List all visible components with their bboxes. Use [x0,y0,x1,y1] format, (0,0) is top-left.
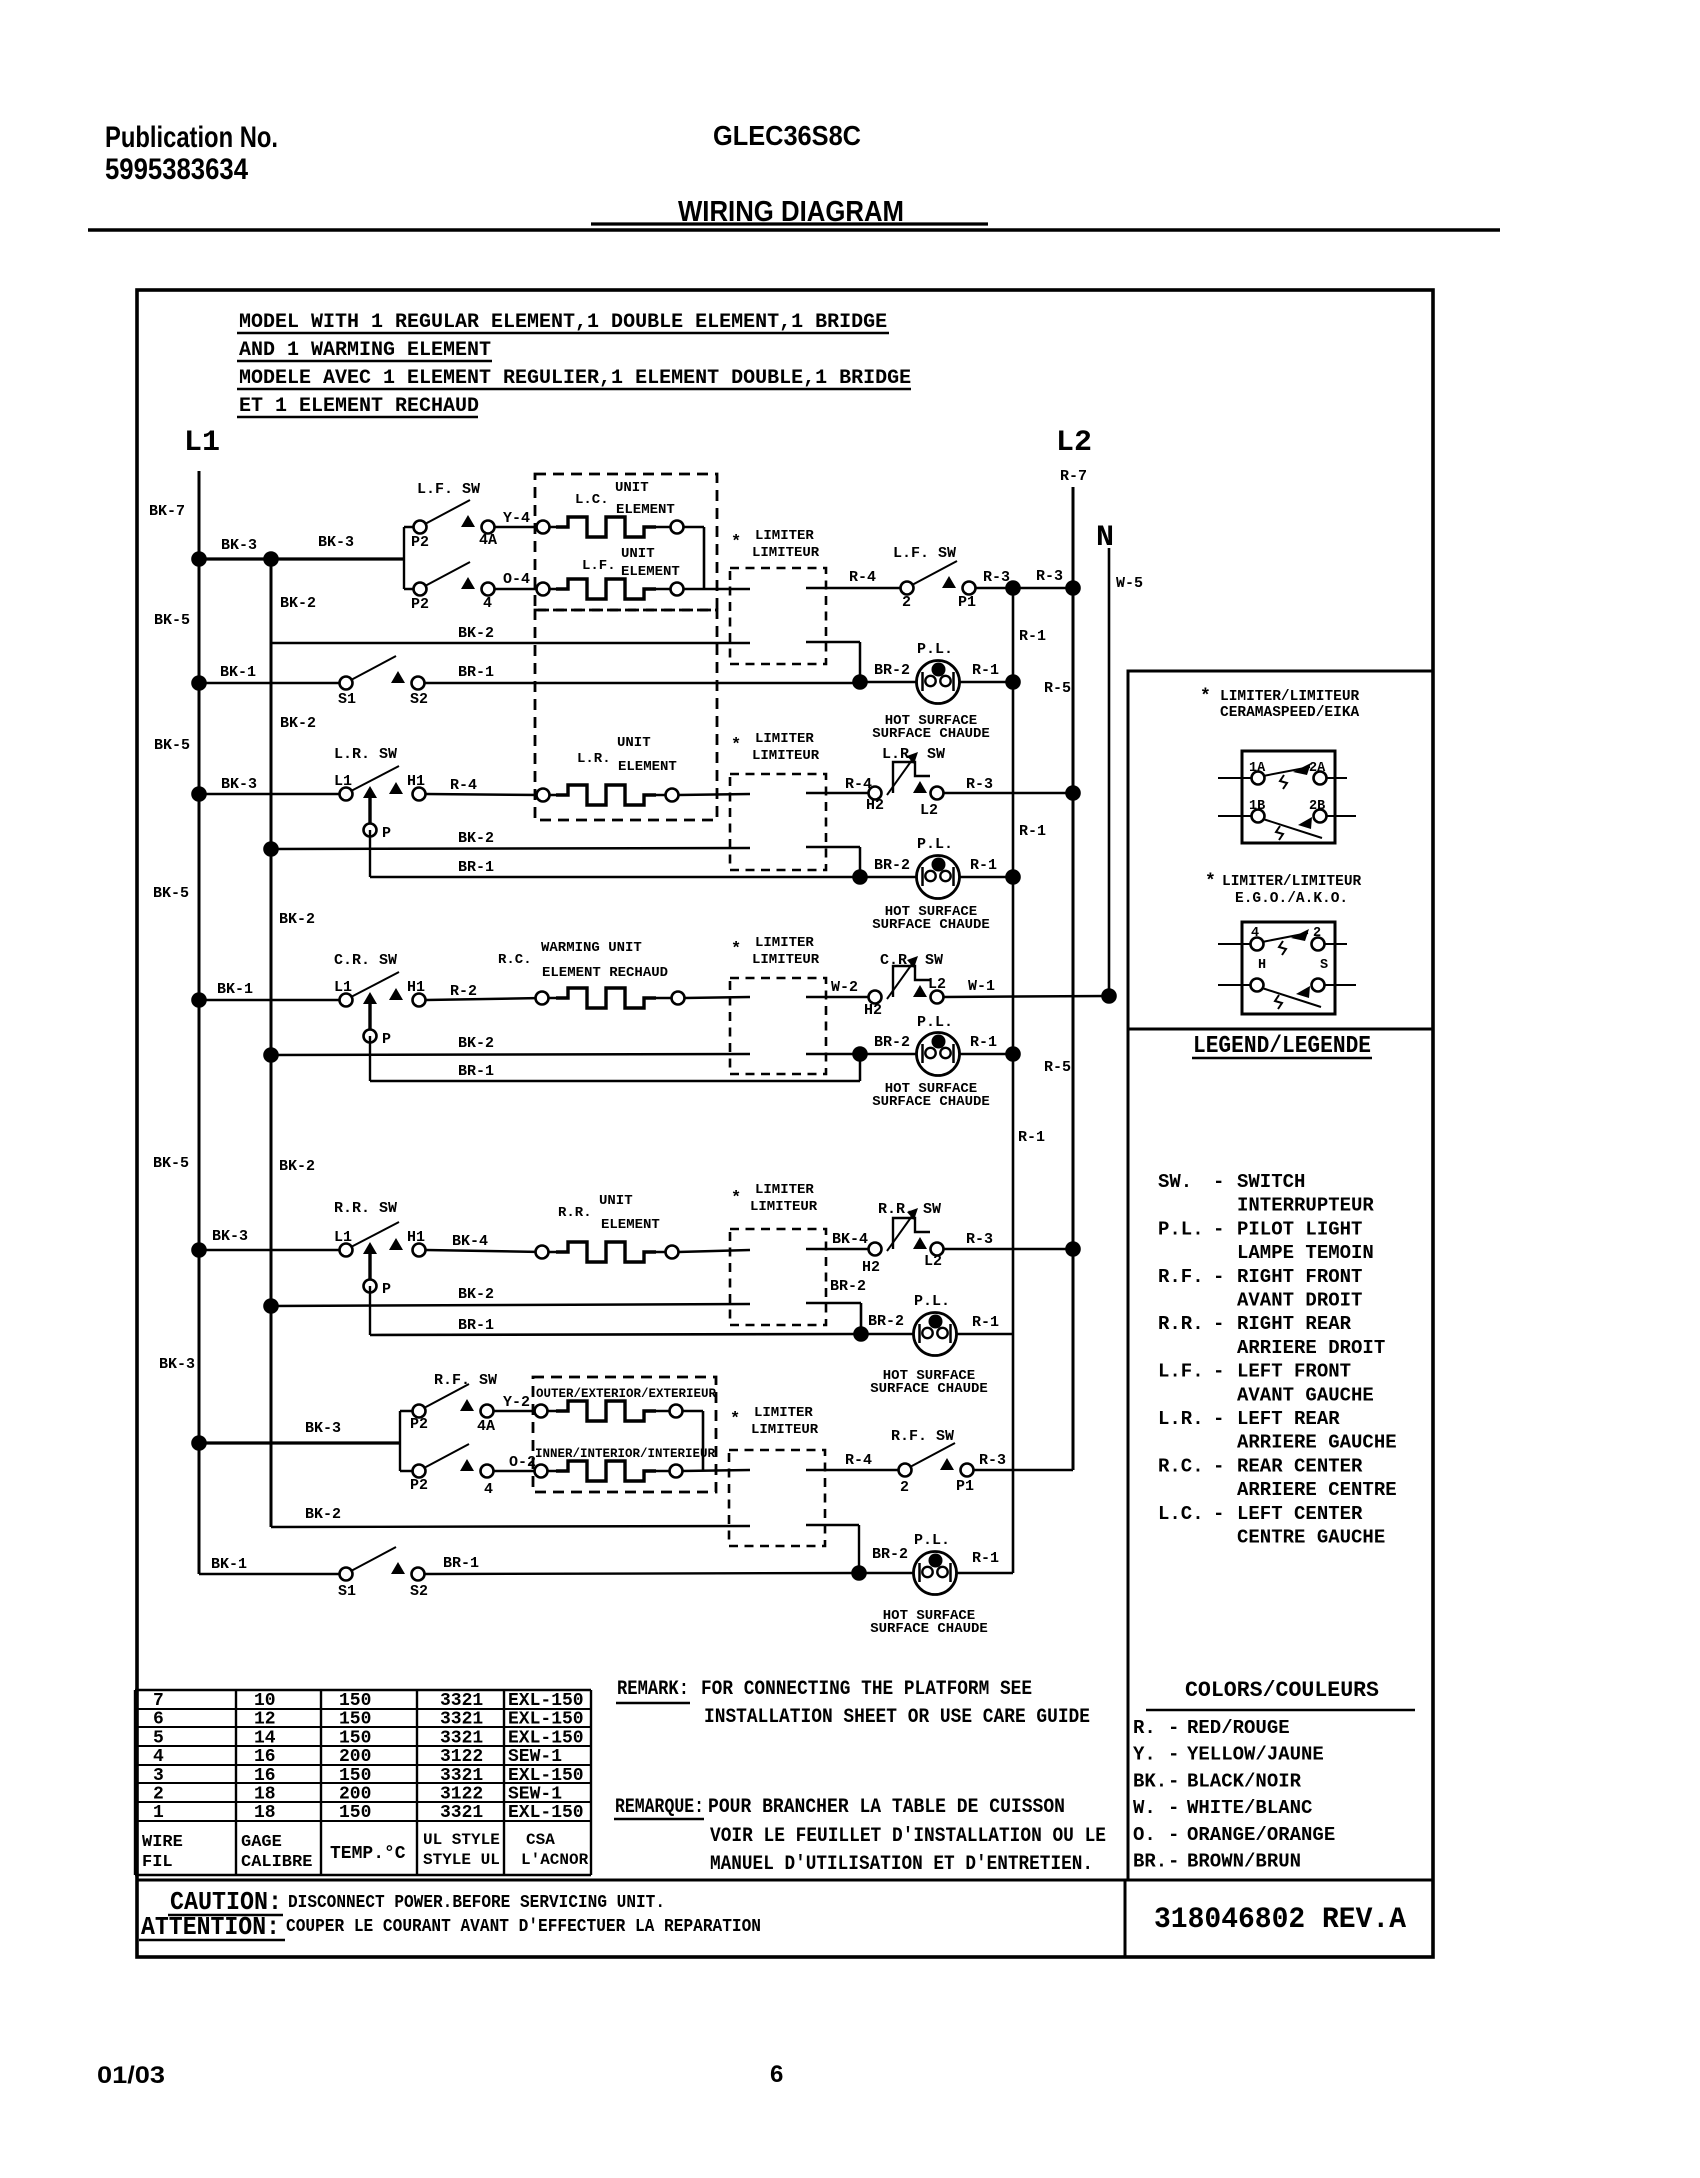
svg-text:LIMITER: LIMITER [754,1405,813,1421]
svg-text:1: 1 [153,1803,164,1823]
svg-text:AVANT GAUCHE: AVANT GAUCHE [1237,1384,1374,1406]
svg-text:P.L.: P.L. [917,836,953,853]
element box R.F. [533,1377,716,1492]
wire Y-4 [494,526,543,529]
limiter sym1 contact 1B-2B [1218,815,1252,817]
svg-text:R.C.: R.C. [1158,1455,1204,1477]
svg-text:200: 200 [339,1747,371,1767]
wire bridge riser row5 [702,1411,705,1471]
limiter sym1 contact 1A-2A [1218,777,1252,779]
svg-text:150: 150 [339,1803,371,1823]
svg-text:P2: P2 [411,596,429,613]
svg-text:R.R. SW: R.R. SW [334,1200,397,1217]
svg-text:BK-2: BK-2 [279,911,315,928]
svg-text:01/03: 01/03 [97,2062,165,2089]
svg-text:LEFT REAR: LEFT REAR [1237,1408,1340,1430]
svg-text:3321: 3321 [440,1803,483,1823]
svg-text:BR-2: BR-2 [872,1546,908,1563]
wire BK-2 exit row5 [806,1524,859,1527]
junction R-3/L2 row2 [1065,785,1081,801]
wire into pilot light [867,681,917,684]
wire R-1 row1 [959,681,1013,684]
limiter symbol CERAMASPEED box [1242,751,1335,843]
svg-text:S2: S2 [410,691,428,708]
svg-text:R-1: R-1 [972,662,999,679]
svg-text:P: P [382,1031,391,1048]
svg-text:R-3: R-3 [979,1452,1006,1469]
svg-text:WHITE/BLANC: WHITE/BLANC [1187,1797,1312,1819]
svg-text:MODELE AVEC 1 ELEMENT REGULIER: MODELE AVEC 1 ELEMENT REGULIER,1 ELEMENT… [239,367,911,390]
svg-text:BR.: BR. [1133,1851,1167,1873]
svg-text:-: - [1168,1744,1179,1766]
svg-text:SWITCH: SWITCH [1237,1171,1305,1193]
svg-text:3122: 3122 [440,1785,483,1805]
svg-text:E.G.O./A.K.O.: E.G.O./A.K.O. [1235,891,1348,907]
svg-text:Y.: Y. [1133,1744,1156,1766]
wire R-4 row5 right [806,1469,899,1472]
svg-text:L'ACNOR: L'ACNOR [521,1851,589,1869]
svg-text:R-5: R-5 [1044,1059,1071,1076]
wire W-1 row3 [943,996,1109,997]
wire L1 bus BK [198,471,201,1574]
svg-text:10: 10 [254,1691,276,1711]
wire BR-2 exit row4 [806,1302,861,1305]
svg-text:REAR CENTER: REAR CENTER [1237,1455,1363,1477]
pilot light P.L. row6 [914,1552,957,1595]
wire P2 riser [403,527,405,589]
wire BK-2 exit row3 [806,1053,860,1056]
svg-text:R-1: R-1 [970,1034,997,1051]
svg-text:2: 2 [902,594,911,611]
svg-text:UNIT: UNIT [599,1193,633,1209]
pilot light P.L. row2 [917,856,960,899]
svg-text:FIL: FIL [142,1853,173,1872]
svg-text:L1: L1 [334,1229,352,1246]
svg-text:BR-1: BR-1 [458,859,494,876]
junction BR-2 row2 [852,869,868,885]
svg-text:BR-1: BR-1 [458,1317,494,1334]
junction BK-2 row4 [263,1298,279,1314]
switch R.F. SW lower P2-4 [413,1444,494,1478]
svg-text:ELEMENT: ELEMENT [616,502,675,518]
svg-text:SEW-1: SEW-1 [508,1747,562,1767]
svg-text:12: 12 [254,1710,276,1730]
svg-text:INTERRUPTEUR: INTERRUPTEUR [1237,1195,1374,1217]
svg-text:Y-4: Y-4 [503,510,530,527]
svg-text:UL STYLE: UL STYLE [423,1831,500,1849]
switch L.F. SW upper P2-4A [414,500,495,534]
wire BR-1 row6 [424,1573,859,1574]
svg-text:L1: L1 [334,773,352,790]
svg-text:LIMITER/LIMITEUR: LIMITER/LIMITEUR [1220,689,1360,705]
wire O-4 [494,588,543,591]
svg-text:BK-3: BK-3 [318,534,354,551]
svg-text:GLEC36S8C: GLEC36S8C [713,120,861,151]
svg-text:BR-1: BR-1 [458,664,494,681]
svg-text:L.R.: L.R. [1158,1408,1204,1430]
svg-text:INNER/INTERIOR/INTERIEUR: INNER/INTERIOR/INTERIEUR [535,1447,716,1461]
svg-text:BK-2: BK-2 [305,1506,341,1523]
heating element R.C. warming [536,992,549,1005]
svg-text:-: - [1213,1218,1224,1240]
svg-text:3321: 3321 [440,1766,483,1786]
svg-text:WARMING UNIT: WARMING UNIT [541,940,642,956]
svg-text:LIMITEUR: LIMITEUR [751,1422,819,1438]
svg-text:W.: W. [1133,1797,1156,1819]
svg-text:POUR BRANCHER LA TABLE DE CUIS: POUR BRANCHER LA TABLE DE CUISSON [708,1796,1065,1819]
svg-text:SURFACE CHAUDE: SURFACE CHAUDE [872,1094,990,1110]
svg-text:Publication No.: Publication No. [105,121,278,154]
svg-text:L.R. SW: L.R. SW [334,746,397,763]
svg-text:-: - [1213,1408,1224,1430]
svg-text:1B: 1B [1249,799,1265,814]
svg-text:R-3: R-3 [983,569,1010,586]
wire R-1 row6 [956,1572,1013,1575]
svg-text:4: 4 [1251,926,1259,941]
svg-text:1A: 1A [1249,761,1266,776]
svg-text:LIMITER: LIMITER [755,731,814,747]
svg-text:BK-5: BK-5 [153,885,189,902]
svg-text:-: - [1168,1851,1179,1873]
svg-text:6: 6 [770,2061,783,2088]
switch L.F. SW lower P2-4 [414,562,495,596]
svg-text:BR-2: BR-2 [874,662,910,679]
svg-text:5995383634: 5995383634 [105,153,248,186]
svg-text:BK-2: BK-2 [458,1286,494,1303]
svg-text:2A: 2A [1309,761,1326,776]
svg-text:S: S [1320,958,1328,973]
svg-text:R-1: R-1 [1018,1129,1045,1146]
svg-text:CENTRE GAUCHE: CENTRE GAUCHE [1237,1527,1385,1549]
heating element R.F. inner [535,1465,548,1478]
svg-text:RED/ROUGE: RED/ROUGE [1187,1717,1290,1739]
svg-text:BR-2: BR-2 [874,857,910,874]
svg-text:-: - [1168,1717,1179,1739]
switch R.F. SW right 2-P1 [899,1443,974,1477]
svg-text:INSTALLATION SHEET OR USE CARE: INSTALLATION SHEET OR USE CARE GUIDE [704,1706,1090,1729]
svg-text:BR-1: BR-1 [458,1063,494,1080]
svg-text:*: * [731,736,741,755]
svg-text:BK.: BK. [1133,1770,1167,1792]
limiter row5 (dashed box) [729,1450,825,1546]
svg-text:YELLOW/JAUNE: YELLOW/JAUNE [1187,1744,1324,1766]
switch R.R. SW right thermal [869,1208,944,1256]
svg-text:REMARK:: REMARK: [617,1678,689,1701]
wire R-4 row1 right [806,587,900,590]
svg-text:BK-3: BK-3 [221,776,257,793]
limiter sym2 contact H-S [1218,984,1251,986]
svg-text:*: * [730,1410,740,1429]
junction L1/BK-1 row3 [191,992,207,1008]
wire BR-1 row3 [370,1080,860,1083]
wire BR-1 row4 [370,1334,861,1335]
svg-text:ORANGE/ORANGE: ORANGE/ORANGE [1187,1824,1335,1846]
svg-text:GAGE: GAGE [241,1833,282,1852]
svg-text:R-3: R-3 [966,1231,993,1248]
svg-text:BK-2: BK-2 [280,595,316,612]
wire BK-4 row4 right [806,1248,869,1251]
switch C.R. SW right thermal [869,956,944,1004]
limiter row1 (dashed box) [730,568,826,664]
svg-text:R-1: R-1 [1019,823,1046,840]
svg-text:4: 4 [153,1747,164,1767]
svg-text:MANUEL D'UTILISATION ET D'ENTR: MANUEL D'UTILISATION ET D'ENTRETIEN. [710,1853,1093,1876]
svg-text:O.: O. [1133,1824,1156,1846]
wire BK-3 row4 [199,1249,346,1252]
svg-text:LIMITER: LIMITER [755,1182,814,1198]
svg-text:LEFT FRONT: LEFT FRONT [1237,1361,1351,1383]
svg-text:BK-3: BK-3 [159,1356,195,1373]
svg-text:4: 4 [483,595,492,612]
svg-text:BK-2: BK-2 [280,715,316,732]
junction BR-2 row6 [851,1565,867,1581]
svg-text:SURFACE CHAUDE: SURFACE CHAUDE [870,1381,988,1397]
svg-text:LEGEND/LEGENDE: LEGEND/LEGENDE [1193,1033,1371,1060]
svg-text:SW.: SW. [1158,1171,1192,1193]
svg-text:*: * [731,533,741,552]
svg-text:BK-3: BK-3 [305,1420,341,1437]
svg-text:3122: 3122 [440,1747,483,1767]
wire BK-3 row5 [199,1441,400,1444]
svg-text:4: 4 [484,1481,493,1498]
svg-text:7: 7 [153,1691,164,1711]
svg-text:COUPER LE COURANT AVANT D'EFFE: COUPER LE COURANT AVANT D'EFFECTUER LA R… [286,1917,761,1937]
wire BK-2 exit row1 [806,641,860,644]
svg-text:PILOT LIGHT: PILOT LIGHT [1237,1218,1362,1240]
wire R-1 row4 [956,1333,1013,1336]
svg-text:S2: S2 [410,1583,428,1600]
svg-text:BROWN/BRUN: BROWN/BRUN [1187,1851,1301,1873]
svg-text:H1: H1 [407,1229,425,1246]
limiter row2 (dashed box) [730,774,826,870]
svg-text:LIMITEUR: LIMITEUR [750,1199,818,1215]
svg-text:BK-2: BK-2 [458,830,494,847]
wire R-3 row1 [975,587,1073,590]
svg-text:BK-4: BK-4 [832,1231,868,1248]
wire P2 riser row5 [399,1411,401,1471]
svg-text:*: * [1205,872,1216,892]
wire R-3 row5 [973,1469,1073,1472]
svg-text:R.F. SW: R.F. SW [434,1372,497,1389]
wire BK-2 row5 [271,1526,750,1527]
wire BK-2 row2 [271,848,750,849]
wire BK-3 row1 [199,557,404,560]
svg-text:BK-2: BK-2 [458,1035,494,1052]
wire BK-2 bus [270,559,273,1527]
svg-text:LIMITEUR: LIMITEUR [752,952,820,968]
junction BK-2 row3 [263,1047,279,1063]
svg-text:ATTENTION:: ATTENTION: [141,1912,280,1942]
svg-text:H2: H2 [862,1259,880,1276]
svg-text:EXL-150: EXL-150 [508,1766,584,1786]
svg-text:4A: 4A [477,1418,495,1435]
switch R.F. SW upper P2-4A [413,1384,494,1418]
wire [682,1410,703,1413]
svg-text:P: P [382,825,391,842]
wire O-2 [493,1470,541,1473]
svg-text:L.R.: L.R. [577,751,611,767]
wire BR-1 row2 [370,876,860,879]
svg-text:P1: P1 [956,1478,974,1495]
svg-text:150: 150 [339,1766,371,1786]
junction R-1 row2 [1005,869,1021,885]
svg-text:-: - [1168,1770,1179,1792]
wire BK-2 row4 [271,1304,750,1306]
svg-text:EXL-150: EXL-150 [508,1710,584,1730]
junction R-3/L2 row4 [1065,1241,1081,1257]
switch C.R. SW left [340,972,426,1043]
element box L.C./L.F. [535,474,717,610]
junction BR-2 row4 [853,1326,869,1342]
svg-text:REMARQUE:: REMARQUE: [615,1796,704,1819]
wire corner down row2 [859,847,862,877]
svg-text:ARRIERE DROIT: ARRIERE DROIT [1237,1337,1385,1359]
wire bridge riser [703,527,706,589]
svg-text:-: - [1213,1455,1224,1477]
svg-text:RIGHT REAR: RIGHT REAR [1237,1313,1352,1335]
wire R-1 row3 [959,1053,1013,1056]
svg-text:-: - [1213,1171,1224,1193]
svg-text:L2: L2 [928,976,946,993]
wire to limiter row5 [682,1470,750,1471]
svg-text:BK-5: BK-5 [154,612,190,629]
svg-text:P1: P1 [958,594,976,611]
element box L.R. [535,610,717,820]
svg-text:BR-2: BR-2 [874,1034,910,1051]
svg-text:BK-5: BK-5 [153,1155,189,1172]
wire to limiter row4 [678,1250,750,1252]
svg-text:H1: H1 [407,979,425,996]
svg-text:R-2: R-2 [450,983,477,1000]
right panel: limiter info box [1128,671,1433,1029]
wire BK-1 row1 [199,682,340,685]
svg-text:-: - [1168,1824,1179,1846]
svg-text:BK-3: BK-3 [212,1228,248,1245]
svg-text:UNIT: UNIT [621,546,655,562]
svg-text:L.F.: L.F. [1158,1361,1204,1383]
wire BK-2 exit row2 [806,846,860,849]
svg-text:200: 200 [339,1785,371,1805]
svg-text:H: H [1258,958,1266,973]
wire BK-2 row1 [271,642,750,645]
junction W-1/N [1101,988,1117,1004]
wire BK-3 row2 [199,793,346,796]
wire gauge table [135,1690,591,1875]
svg-text:BR-2: BR-2 [868,1313,904,1330]
wire to limiter row3 [684,997,750,998]
svg-text:R.F. SW: R.F. SW [891,1428,954,1445]
svg-text:BK-1: BK-1 [220,664,256,681]
svg-text:SURFACE CHAUDE: SURFACE CHAUDE [872,917,990,933]
svg-text:SURFACE CHAUDE: SURFACE CHAUDE [870,1621,988,1637]
svg-text:H1: H1 [407,773,425,790]
junction R-3/R-1 [1005,580,1021,596]
wire R-4 row2 right [806,792,869,795]
svg-text:BK-4: BK-4 [452,1233,488,1250]
svg-text:STYLE UL: STYLE UL [423,1851,500,1869]
svg-text:L1: L1 [184,426,220,460]
svg-text:CERAMASPEED/EIKA: CERAMASPEED/EIKA [1220,705,1360,721]
svg-text:RIGHT FRONT: RIGHT FRONT [1237,1266,1362,1288]
pilot light P.L. row1 [917,661,960,704]
wire R-1 bus [1012,588,1015,1573]
heating element L.F. [537,583,550,596]
svg-text:ELEMENT: ELEMENT [618,759,677,775]
wire R-2 row3 [426,998,542,1000]
svg-text:P.L.: P.L. [914,1532,950,1549]
svg-text:2: 2 [1313,926,1321,941]
svg-text:BK-2: BK-2 [279,1158,315,1175]
wire Y-2 [493,1410,541,1413]
svg-text:L.C.: L.C. [1158,1503,1204,1525]
svg-text:H2: H2 [866,797,884,814]
svg-text:16: 16 [254,1766,276,1786]
svg-text:LEFT CENTER: LEFT CENTER [1237,1503,1363,1525]
svg-text:BK-2: BK-2 [458,625,494,642]
switch L.F. SW right 2-P1 [901,561,976,595]
svg-text:L.R. SW: L.R. SW [882,746,945,763]
bottom strip divider [137,1879,1431,1882]
svg-text:2: 2 [153,1785,164,1805]
svg-text:L.F. SW: L.F. SW [417,481,480,498]
svg-text:5: 5 [153,1728,164,1748]
svg-text:ELEMENT: ELEMENT [621,564,680,580]
junction L1/BK-3 row5 [191,1435,207,1451]
junction L1/BK-3 row2 [191,786,207,802]
svg-text:150: 150 [339,1710,371,1730]
svg-text:R.F.: R.F. [1158,1266,1204,1288]
wire corner up row3 [859,1054,862,1081]
pilot light P.L. row3 [917,1033,960,1076]
switch L.R. SW left [340,766,426,837]
svg-text:14: 14 [254,1728,276,1748]
svg-text:R.R.: R.R. [1158,1313,1204,1335]
svg-text:P.L.: P.L. [917,1014,953,1031]
svg-text:L.F. SW: L.F. SW [893,545,956,562]
svg-text:L.C.: L.C. [575,492,609,508]
svg-text:R.: R. [1133,1717,1156,1739]
svg-text:CALIBRE: CALIBRE [241,1853,312,1872]
svg-text:150: 150 [339,1728,371,1748]
svg-text:C.R. SW: C.R. SW [334,952,397,969]
svg-text:P.L.: P.L. [914,1293,950,1310]
wire L2 bus R-7 [1072,487,1075,1470]
pilot light P.L. row4 [914,1313,957,1356]
svg-text:2: 2 [900,1479,909,1496]
heating element R.F. outer [535,1405,548,1418]
wire BK-1 row3 [199,999,346,1002]
junction BK-2 row2 [263,841,279,857]
svg-text:18: 18 [254,1785,276,1805]
svg-text:W-2: W-2 [831,979,858,996]
svg-text:-: - [1213,1361,1224,1383]
svg-text:318046802 REV.A: 318046802 REV.A [1154,1903,1406,1937]
svg-text:SURFACE CHAUDE: SURFACE CHAUDE [872,726,990,742]
wire BR-1 row1 [424,682,860,685]
svg-text:BK-7: BK-7 [149,503,185,520]
svg-text:R-3: R-3 [966,776,993,793]
limiter symbol EGO/AKO box [1242,922,1335,1014]
svg-text:P.L.: P.L. [917,641,953,658]
svg-text:*: * [1200,687,1211,707]
wire R-3 row2 [943,792,1073,795]
heating element L.R. [537,789,550,802]
svg-text:-: - [1168,1797,1179,1819]
wire to limiter row2 [678,794,750,795]
svg-text:LAMPE TEMOIN: LAMPE TEMOIN [1237,1242,1374,1264]
svg-text:16: 16 [254,1747,276,1767]
svg-text:WIRE: WIRE [142,1833,183,1852]
